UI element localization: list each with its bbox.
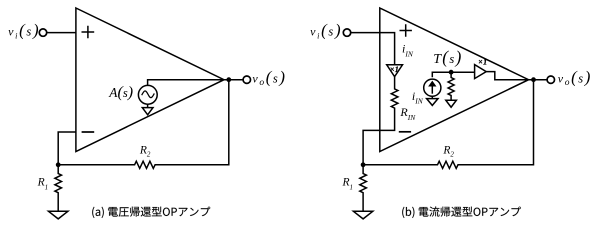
svg-text:vi(s): vi(s) (8, 20, 40, 40)
svg-text:iIN: iIN (402, 42, 414, 59)
svg-text:vi(s): vi(s) (310, 20, 342, 40)
svg-text:R1: R1 (37, 177, 49, 192)
svg-text:R2: R2 (442, 145, 454, 159)
svg-text:iIN: iIN (412, 89, 424, 106)
svg-text:vo(s): vo(s) (252, 68, 286, 88)
svg-text:T(s): T(s) (433, 47, 462, 67)
svg-text:R2: R2 (139, 145, 151, 159)
svg-text:×1: ×1 (390, 65, 399, 74)
svg-text:A(s): A(s) (108, 84, 133, 101)
svg-text:RIN: RIN (399, 105, 416, 122)
svg-text:×1: ×1 (478, 58, 487, 67)
svg-text:R1: R1 (342, 177, 354, 192)
svg-text:vo(s): vo(s) (558, 68, 592, 88)
